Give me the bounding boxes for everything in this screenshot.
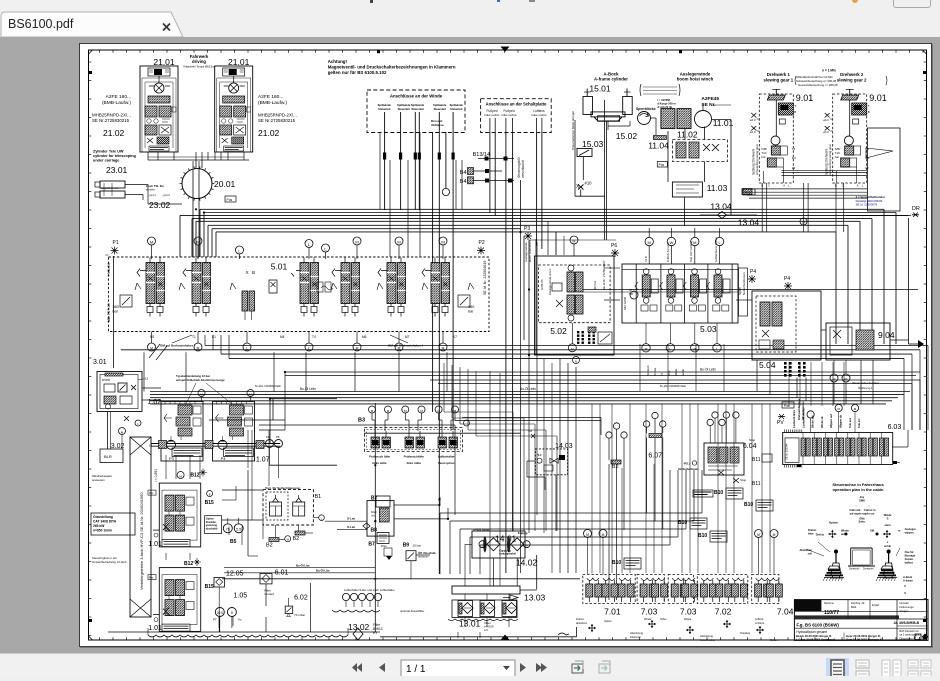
svg-text:N: N [575, 359, 577, 363]
svg-text:A2FE 160...: A2FE 160... [106, 94, 131, 100]
svg-text:Oam 18.06.2001 Springer K.: Oam 18.06.2001 Springer K. [846, 638, 883, 642]
svg-text:1.02: 1.02 [148, 399, 162, 406]
svg-text:operation plan in the cabin: operation plan in the cabin [833, 487, 884, 492]
svg-text:GM auf Drehsteinheber I: GM auf Drehsteinheber I [160, 344, 195, 348]
svg-text:Winde ab: Winde ab [820, 416, 824, 428]
svg-text:höher: höher [660, 617, 667, 621]
svg-text:Ja. 49/5-B/H/B-B: Ja. 49/5-B/H/B-B [894, 621, 920, 625]
svg-text:L.Gepr. 20.06.2001 Springer K: L.Gepr. 20.06.2001 Springer K. [796, 638, 836, 642]
svg-text:d Kurge 500 m: d Kurge 500 m [657, 102, 676, 106]
svg-text:MVPD: MVPD [102, 378, 110, 382]
svg-text:Öl links: Öl links [654, 367, 657, 376]
svg-text:–ymt.1: –ymt.1 [148, 193, 156, 197]
svg-text:n=650 1/min: n=650 1/min [93, 529, 112, 533]
svg-text:HVB-06: HVB-06 [540, 279, 544, 290]
svg-text:A2FE 160...: A2FE 160... [258, 94, 283, 100]
svg-text:9.04: 9.04 [878, 330, 895, 340]
svg-text:Fahrst re: Fahrst re [864, 508, 876, 512]
svg-text:6x-20x 10000ltr/Valin: 6x-20x 10000ltr/Valin [255, 384, 282, 388]
svg-text:auf ab: auf ab [884, 545, 892, 548]
svg-text:L: L [862, 184, 864, 188]
svg-text:Montage: Montage [905, 554, 916, 558]
svg-text:Winde: Winde [675, 368, 678, 376]
svg-text:Kupplg: Kupplg [518, 531, 528, 535]
svg-text:Tele ein: Tele ein [857, 418, 861, 428]
svg-text:8: 8 [231, 611, 233, 615]
svg-text:Pos: Pos [227, 198, 233, 202]
svg-text:gelten nur für BS 6100.5.102: gelten nur für BS 6100.5.102 [328, 70, 387, 75]
svg-text:optional Zusatzfilter: optional Zusatzfilter [400, 609, 424, 613]
svg-text:11.03: 11.03 [707, 183, 728, 193]
svg-text:Bu-Öl Lltn: Bu-Öl Lltn [316, 568, 330, 573]
svg-text:Steuerleit: Steuerleit [398, 107, 410, 111]
svg-text:B4: B4 [460, 170, 467, 176]
svg-text:L3: L3 [792, 166, 796, 170]
svg-text:M: M [693, 240, 696, 245]
svg-text:⇅: ⇅ [904, 584, 907, 588]
svg-text:K7: K7 [453, 335, 457, 339]
svg-text:B: B [868, 110, 870, 114]
svg-text:M: M [602, 533, 605, 537]
svg-text:M: M [196, 239, 199, 244]
svg-text:B12: B12 [184, 561, 193, 567]
svg-text:bar: bar [761, 155, 765, 159]
svg-text:SE Id.Nr. 2725030697: SE Id.Nr. 2725030697 [602, 260, 606, 290]
svg-text:Seitn.: Seitn. [858, 520, 865, 524]
svg-text:Pneumatischer Mittel abregel: Pneumatischer Mittel abregel [571, 111, 575, 150]
svg-text:5.01: 5.01 [271, 262, 288, 272]
svg-text:B3: B3 [358, 418, 365, 424]
svg-text:M: M [845, 378, 848, 382]
svg-text:SE Id. 22900679: SE Id. 22900679 [856, 203, 878, 207]
svg-text:ø4.0: ø4.0 [823, 130, 829, 134]
svg-text:A-frame: A-frame [903, 579, 913, 583]
svg-text:Drehstuhl: Drehstuhl [849, 568, 860, 571]
svg-text:auf regeln regeln vor: auf regeln regeln vor [850, 513, 875, 516]
svg-text:Pos: Pos [149, 492, 154, 495]
svg-text:5.5: 5.5 [236, 528, 241, 532]
svg-text:Bu-Öl Leitn: Bu-Öl Leitn [700, 368, 716, 372]
svg-text:Prüfansch lüfte: Prüfansch lüfte [369, 455, 390, 459]
svg-text:Drehstuhl: Drehstuhl [863, 568, 874, 571]
svg-text:B2: B2 [612, 464, 619, 470]
svg-text:13.01: 13.01 [459, 619, 481, 629]
svg-text:9.01: 9.01 [796, 93, 814, 103]
svg-text:DR: DR [912, 206, 920, 212]
svg-text:Ölführung 1: Ölführung 1 [858, 386, 873, 390]
svg-text:Abflüsse: Abflüsse [431, 123, 444, 127]
svg-text:auf ab: auf ab [682, 368, 685, 376]
svg-text:A-Bock: A-Bock [903, 575, 913, 579]
svg-text:Winde: Winde [644, 617, 652, 621]
svg-text:HY: HY [484, 628, 488, 632]
svg-text:7.02: 7.02 [715, 607, 732, 617]
svg-text:360 bar: 360 bar [593, 280, 597, 290]
svg-text:15.03: 15.03 [582, 139, 604, 149]
svg-text:B: B [252, 270, 255, 275]
svg-text:6.02: 6.02 [294, 595, 308, 602]
svg-text:bar: bar [835, 155, 839, 159]
svg-text:i = 1kVPM: i = 1kVPM [657, 98, 670, 102]
svg-text:Tele UW hoisting: Tele UW hoisting [689, 241, 693, 262]
svg-text:cylinder for telescoping: cylinder for telescoping [93, 154, 137, 158]
svg-text:Filter: Filter [371, 510, 377, 514]
svg-text:9.01: 9.01 [869, 93, 887, 103]
svg-text:seil: seil [808, 552, 813, 556]
svg-text:PT: PT [213, 618, 217, 622]
svg-text:A: A [783, 184, 785, 188]
svg-text:B4: B4 [460, 179, 467, 185]
svg-text:7.03: 7.03 [641, 607, 658, 617]
svg-text:Drehtisch: Drehtisch [647, 365, 650, 376]
svg-text:Drehwerkbremse: Drehwerkbremse [797, 398, 801, 420]
svg-text:bar: bar [468, 310, 474, 314]
svg-text:6.04: 6.04 [743, 443, 757, 450]
svg-text:Teilantrieb/ Torque 88/2,5xx: Teilantrieb/ Torque 88/2,5xx [183, 65, 215, 69]
svg-text:SE Id. Nr. 232503619: SE Id. Nr. 232503619 [483, 261, 487, 295]
svg-text:n = 1 Min: n = 1 Min [822, 69, 836, 73]
svg-text:Nettomenge: Nettomenge [900, 605, 915, 609]
svg-text:A-Bock A-frame: A-Bock A-frame [666, 242, 670, 262]
svg-text:7.03: 7.03 [680, 607, 697, 617]
svg-text:(BMB-Laufw.): (BMB-Laufw.) [258, 100, 287, 106]
svg-text:M: M [150, 239, 153, 244]
svg-text:ø4.0: ø4.0 [750, 130, 756, 134]
svg-text:links rechts: links rechts [531, 113, 547, 117]
svg-text:X: X [246, 270, 249, 275]
svg-text:23.01: 23.01 [106, 165, 128, 175]
svg-text:B10: B10 [612, 560, 621, 566]
svg-text:Auslegerwinde winch: Auslegerwinde winch [548, 268, 552, 295]
svg-text:M: M [287, 538, 289, 542]
svg-text:B: B [794, 110, 796, 114]
svg-text:Wippe: Wippe [684, 617, 692, 621]
svg-text:O-Lim: O-Lim [347, 517, 356, 521]
svg-text:Laufwerk links: Laufwerk links [792, 409, 796, 428]
svg-text:15.01: 15.01 [589, 84, 611, 94]
svg-text:SE Nr.2725830215: SE Nr.2725830215 [258, 118, 296, 123]
svg-text:Zeichng.-Nr.: Zeichng.-Nr. [851, 601, 865, 605]
svg-text:15.02: 15.02 [616, 131, 638, 141]
svg-text:Bu-Öl Lltn: Bu-Öl Lltn [296, 563, 310, 568]
svg-text:B10: B10 [698, 533, 707, 539]
svg-text:driving: driving [192, 59, 206, 64]
svg-text:wippen: wippen [905, 531, 914, 535]
svg-text:B9: B9 [403, 543, 410, 549]
svg-text:M4: M4 [280, 335, 285, 339]
svg-text:Pos: Pos [659, 163, 665, 167]
svg-text:Steuerleit: Steuerleit [450, 107, 462, 111]
svg-text:P4: P4 [750, 269, 756, 275]
svg-text:11.02: 11.02 [677, 130, 698, 140]
svg-text:RGB: RGB [745, 191, 751, 195]
svg-text:6.03: 6.03 [888, 424, 902, 431]
svg-text:B2: B2 [293, 536, 300, 542]
svg-text:7.01: 7.01 [604, 607, 621, 617]
svg-text:21.02: 21.02 [103, 128, 125, 138]
svg-text:T4: T4 [792, 147, 796, 151]
svg-text:links/vorn: links/vorn [630, 635, 642, 639]
svg-text:M: M [645, 347, 648, 351]
svg-text:Ersatz: Ersatz [872, 603, 880, 607]
svg-text:M: M [648, 240, 651, 245]
svg-text:Vorr. für Seilschmierung: Vorr. für Seilschmierung [265, 486, 300, 490]
svg-text:B8: B8 [371, 528, 378, 534]
svg-text:L: L [308, 242, 311, 247]
svg-text:Wippen ab: Wippen ab [839, 414, 843, 428]
svg-text:Winde: Winde [841, 529, 849, 533]
svg-text:↑: ↑ [855, 504, 857, 508]
svg-text:PV: PV [777, 420, 784, 426]
svg-text:abschaltb: abschaltb [206, 527, 218, 530]
svg-text:Prüfanschlüfte: Prüfanschlüfte [404, 455, 425, 459]
svg-text:Vo: Vo [238, 618, 242, 622]
svg-text:Abstützung: Abstützung [630, 631, 644, 635]
svg-text:T4: T4 [312, 335, 316, 339]
svg-text:º4.0: º4.0 [537, 454, 542, 457]
svg-text:Herstell.: Herstell. [900, 601, 910, 605]
svg-text:SE Id. 223344: SE Id. 223344 [785, 443, 789, 460]
svg-text:M: M [397, 239, 400, 244]
svg-text:MHB25RNPD-2X/...: MHB25RNPD-2X/... [92, 113, 131, 118]
svg-text:abstützen: abstützen [576, 621, 588, 625]
svg-text:M: M [441, 239, 444, 244]
svg-text:Anschlüsse an der Winde: Anschlüsse an der Winde [390, 94, 443, 99]
svg-text:Teleskop: Teleskop [740, 631, 751, 635]
svg-text:M: M [437, 409, 440, 413]
svg-text:MHB25RNPD-2X/...: MHB25RNPD-2X/... [258, 113, 297, 118]
svg-text:21.01: 21.01 [228, 57, 250, 67]
svg-text:(BMB-Laufw.): (BMB-Laufw.) [102, 100, 131, 106]
svg-text:BLR: BLR [104, 454, 112, 459]
svg-text:under carriage: under carriage [93, 159, 119, 163]
svg-text:Leitungskabel: Leitungskabel [499, 553, 516, 556]
svg-text:1.01: 1.01 [148, 625, 162, 632]
svg-text:Luftbehälter: Luftbehälter [438, 455, 456, 459]
svg-text:Blatt: Blatt [851, 605, 856, 609]
svg-text:Umsetzbetriebslog 12-fach: Umsetzbetriebslog 12-fach [92, 560, 127, 564]
svg-text:13.03: 13.03 [524, 593, 546, 603]
svg-text:B11: B11 [752, 481, 761, 487]
svg-text:A-Bock: A-Bock [755, 617, 764, 621]
svg-text:einzeln: einzeln [146, 188, 155, 192]
svg-text:auf: auf [841, 532, 845, 536]
svg-text:bitte: bitte [808, 532, 814, 536]
svg-text:20.01: 20.01 [214, 179, 236, 189]
svg-text:L: L [718, 240, 721, 245]
svg-text:Imy: Imy [860, 495, 865, 499]
svg-text:7.04: 7.04 [777, 607, 794, 617]
svg-text:ø: ø [887, 540, 889, 544]
svg-text:3.01: 3.01 [93, 359, 107, 366]
svg-text:B5: B5 [230, 539, 237, 545]
svg-text:1 / 1: 1 / 1 [406, 664, 426, 675]
svg-text:ø4.0: ø4.0 [750, 118, 756, 122]
svg-text:T: T [868, 104, 870, 108]
svg-text:M: M [837, 407, 840, 411]
svg-text:265 kW: 265 kW [93, 524, 105, 528]
svg-text:13.04: 13.04 [710, 202, 732, 212]
svg-text:21.01: 21.01 [153, 57, 175, 67]
svg-text:P1: P1 [113, 240, 119, 246]
svg-text:Spillwinde: Spillwinde [397, 103, 411, 107]
svg-text:für Seilschmier.: für Seilschmier. [678, 467, 699, 471]
svg-text:Öse für: Öse für [905, 549, 914, 554]
svg-text:↑: ↑ [868, 504, 870, 508]
svg-text:speisetem: speisetem [92, 478, 105, 482]
svg-text:A2FE45: A2FE45 [701, 96, 719, 102]
svg-text:Inf B: Inf B [644, 256, 648, 262]
svg-text:Nebenfunktionen: Nebenfunktionen [742, 272, 746, 295]
svg-text:links rechts: links rechts [501, 113, 517, 117]
svg-text:21.02: 21.02 [258, 128, 280, 138]
svg-text:12.05: 12.05 [226, 571, 244, 578]
svg-text:O-Lim: O-Lim [347, 525, 356, 529]
svg-text:Steuerleit: Steuerleit [434, 107, 446, 111]
svg-text:L: L [716, 347, 718, 351]
svg-text:Ölzustellung: Ölzustellung [93, 515, 113, 519]
svg-text:fixed option: fixed option [438, 461, 455, 465]
svg-text:Option: Option [770, 638, 778, 642]
svg-text:Sperrblöcke: Sperrblöcke [636, 107, 656, 111]
svg-text:Spillwinde: Spillwinde [450, 103, 464, 107]
svg-text:K1: K1 [212, 335, 216, 339]
svg-text:B10: B10 [714, 490, 723, 496]
svg-text:M: M [121, 430, 124, 434]
svg-text:Pos: Pos [149, 577, 154, 580]
svg-text:L: L [324, 246, 327, 251]
svg-text:15 bar: 15 bar [413, 544, 422, 548]
svg-text:mit: mit [371, 514, 375, 518]
svg-text:A: A [857, 184, 859, 188]
svg-text:Gesamtübersetzung i = 280,28: Gesamtübersetzung i = 280,28 [798, 83, 838, 87]
svg-text:B: B [209, 493, 211, 497]
svg-text:Spillwinde: Spillwinde [411, 103, 425, 107]
svg-text:13.02: 13.02 [348, 622, 370, 632]
svg-text:M: M [387, 409, 390, 413]
svg-text:⇅: ⇅ [886, 517, 889, 521]
svg-text:MB-TN7-30: MB-TN7-30 [107, 303, 111, 322]
svg-text:Ausleger-: Ausleger- [905, 527, 917, 531]
svg-text:Bu-Öl Leitn: Bu-Öl Leitn [520, 387, 536, 391]
svg-text:P4: P4 [221, 456, 227, 461]
svg-text:M: M [179, 474, 182, 478]
svg-text:B2: B2 [266, 543, 273, 549]
svg-text:ø4.0: ø4.0 [823, 118, 829, 122]
svg-text:Spillwinde: Spillwinde [433, 103, 447, 107]
svg-text:y12: y12 [143, 377, 148, 381]
svg-text:GM: GM [870, 530, 874, 533]
svg-text:re: re [898, 530, 901, 533]
svg-text:L: L [669, 347, 671, 351]
svg-text:B1: B1 [315, 494, 322, 500]
svg-text:BAT1 Erstellt mit: BAT1 Erstellt mit [900, 629, 919, 633]
svg-text:M7: M7 [405, 335, 410, 339]
svg-text:Bu-Öl Leitn: Bu-Öl Leitn [300, 387, 316, 391]
svg-text:verschlaucht: verschlaucht [521, 160, 525, 178]
svg-text:Abstützung: Abstützung [700, 634, 714, 638]
svg-text:5.02: 5.02 [550, 326, 567, 336]
svg-text:M1: M1 [150, 335, 155, 339]
svg-text:SM: SM [629, 292, 633, 296]
svg-text:Anschlüsse an der Schaltplatte: Anschlüsse an der Schaltplatte [486, 102, 547, 107]
svg-text:Abstützen: Abstützen [799, 548, 812, 552]
svg-text:Zusatz-: Zusatz- [905, 557, 914, 561]
svg-text:SM 12DB: SM 12DB [623, 297, 627, 310]
svg-text:P2: P2 [479, 240, 485, 246]
svg-text:Option: Option [829, 521, 838, 525]
svg-text:A-frame cylinder: A-frame cylinder [594, 77, 628, 82]
svg-text:B12: B12 [190, 473, 199, 479]
svg-text:Verteilergetriebe 3-fach HVP-C: Verteilergetriebe 3-fach HVP-C3 SE Id.Nr… [139, 492, 144, 590]
svg-text:1.1: 1.1 [149, 444, 153, 448]
svg-text:M: M [773, 533, 776, 537]
svg-text:Winde auf: Winde auf [811, 415, 815, 428]
svg-text:6x-20x 10000ltr/Valin: 6x-20x 10000ltr/Valin [660, 384, 687, 388]
svg-text:D4: D4 [792, 156, 796, 160]
svg-text:boom hoist winch: boom hoist winch [677, 77, 714, 82]
svg-text:Drehst: Drehst [576, 617, 584, 621]
svg-text:1.01: 1.01 [148, 541, 162, 548]
svg-text:5.03: 5.03 [700, 324, 717, 334]
svg-text:Achtung!: Achtung! [328, 59, 348, 64]
svg-text:L: L [137, 422, 139, 426]
svg-text:Filter: Filter [381, 544, 387, 548]
svg-text:Zylinder Tele UW: Zylinder Tele UW [93, 150, 124, 154]
svg-text:CAT 3408 DITA: CAT 3408 DITA [93, 520, 117, 524]
svg-text:M: M [757, 533, 760, 537]
svg-text:N: N [571, 347, 574, 351]
svg-text:º4.0: º4.0 [528, 430, 533, 433]
svg-text:5.04: 5.04 [759, 360, 776, 370]
svg-text:-PS.1: -PS.1 [683, 462, 691, 466]
svg-text:entspricht Betrieb Abstimmvors: entspricht Betrieb Abstimmvorsorge [176, 378, 225, 382]
svg-text:B15: B15 [205, 500, 214, 506]
svg-text:Steuerleit: Steuerleit [411, 107, 423, 111]
svg-text:Drehst: Drehst [816, 533, 824, 537]
svg-text:i = 0,891: i = 0,891 [154, 469, 158, 482]
svg-text:14.02: 14.02 [516, 558, 538, 568]
svg-text:B11: B11 [752, 457, 761, 463]
svg-text:#10: #10 [585, 181, 593, 186]
svg-text:T3: T3 [661, 372, 664, 376]
svg-text:Spillwinde: Spillwinde [378, 103, 392, 107]
svg-text:P3: P3 [524, 226, 530, 232]
svg-text:Fahrst.B: Fahrst.B [850, 508, 861, 512]
svg-text:Diagramm 4: Diagramm 4 [900, 637, 916, 641]
svg-text:slewing gear 2: slewing gear 2 [837, 78, 867, 83]
svg-text:M: M [355, 239, 358, 244]
svg-text:M: M [854, 407, 857, 411]
svg-text:Drehst: Drehst [808, 528, 816, 532]
svg-text:23.02: 23.02 [149, 200, 171, 210]
svg-text:Option: Option [604, 619, 612, 623]
svg-text:W: W [670, 240, 674, 245]
svg-text:Öl re: Öl re [668, 370, 671, 376]
svg-text:links rechts: links rechts [484, 113, 500, 117]
svg-text:6.01: 6.01 [275, 570, 289, 577]
svg-text:Drehwerk 1: Drehwerk 1 [767, 72, 791, 77]
svg-text:Wippen auf: Wippen auf [829, 414, 833, 428]
svg-text:1.05: 1.05 [234, 593, 248, 600]
svg-text:HVB-2X: HVB-2X [107, 262, 111, 276]
svg-text:B7: B7 [368, 542, 375, 548]
svg-text:20.5: 20.5 [217, 611, 223, 615]
svg-text:C: C [768, 184, 770, 188]
svg-text:P6: P6 [276, 435, 280, 439]
svg-text:T: T [794, 104, 796, 108]
svg-text:GMK: GMK [859, 499, 865, 503]
